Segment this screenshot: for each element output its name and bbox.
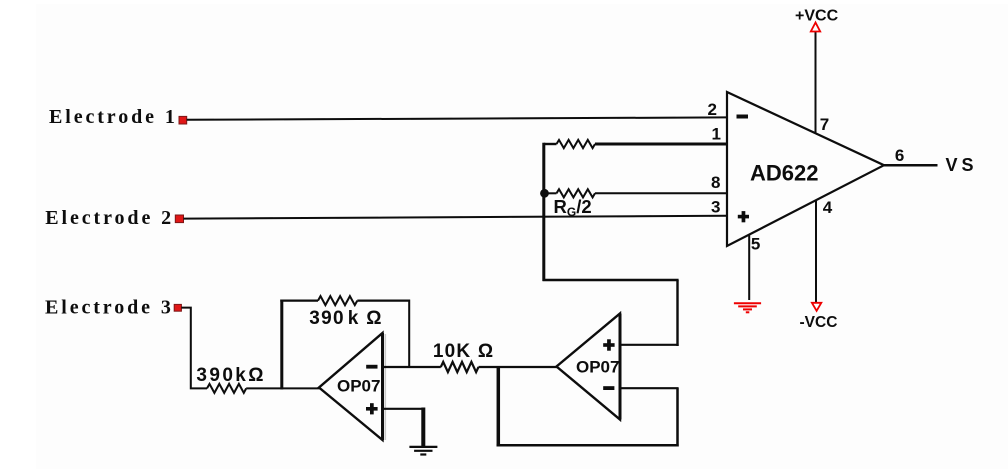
wire +VCC to pin 7 [815, 32, 817, 134]
op-amp U2 minus sign [603, 386, 614, 390]
wire AD622 pin 8 left segment [545, 192, 557, 194]
svg-text:Electrode 1: Electrode 1 [49, 106, 178, 128]
node Electrode 3 terminal (red square) [174, 304, 181, 311]
resistor R2 390kOhm feedback zigzag [318, 296, 357, 305]
svg-text:5: 5 [751, 234, 760, 253]
op-amp U2 flat edge thick [619, 314, 622, 420]
svg-text:390 k Ω: 390 k Ω [309, 308, 382, 329]
wire AD622 pin 1 left segment (thick) [544, 143, 557, 145]
svg-text:390kΩ: 390kΩ [196, 365, 266, 386]
wire U1 non-inverting input stub [383, 408, 424, 410]
wire feedback top right segment [357, 299, 409, 301]
junction node dot [540, 189, 549, 198]
wire RG node horizontal at y280 [543, 279, 679, 281]
power symbol +VCC red triangle [811, 23, 820, 32]
wire feedback right vertical to inverting input [408, 300, 410, 368]
op-amp U2 OP07 triangle (points left) [557, 314, 621, 420]
op-amp U1 plus sign [366, 407, 378, 411]
op-amp U3 AD622 triangle [727, 92, 884, 246]
svg-text:7: 7 [820, 115, 829, 134]
node Electrode 2 terminal (red square) [175, 215, 183, 223]
wire U2 feedback bottom horizontal [497, 444, 679, 447]
op-amp U1 OP07 triangle (points left) [319, 333, 383, 440]
svg-text:Electrode 2: Electrode 2 [45, 207, 174, 229]
wire pin 5 to ground [748, 235, 750, 301]
op-amp U3 minus sign [737, 115, 749, 119]
svg-text:4: 4 [823, 198, 833, 217]
svg-text:AD622: AD622 [750, 161, 818, 186]
wire AD622 pin 8 right segment [595, 192, 727, 194]
svg-text:8: 8 [711, 173, 720, 192]
wire thick vertical feedback-left node [280, 300, 283, 390]
svg-text:3: 3 [711, 197, 720, 216]
ground symbol (red) [734, 303, 761, 312]
svg-text:1: 1 [712, 125, 721, 144]
wire pin 4 to -VCC [815, 201, 817, 303]
wire U2 non-inverting stub [620, 344, 679, 346]
op-amp U1 minus sign [366, 365, 377, 369]
svg-text:OP07: OP07 [337, 377, 380, 396]
svg-text:+VCC: +VCC [795, 8, 839, 25]
svg-text:OP07: OP07 [576, 358, 619, 377]
resistor R3 10K zigzag [441, 362, 479, 372]
resistor RG/2 lower zigzag [557, 189, 596, 197]
ground symbol (black) [409, 447, 437, 455]
svg-text:Electrode 3: Electrode 3 [45, 297, 174, 319]
op-amp U1 flat edge thick [381, 333, 384, 440]
svg-text:10K Ω: 10K Ω [433, 341, 494, 362]
op-amp U3 plus sign [738, 215, 749, 219]
wire input resistor to OP07 U1 output node [246, 387, 319, 389]
power symbol -VCC red triangle [812, 303, 821, 311]
wire U2 feedback left vertical [497, 366, 501, 446]
wire Electrode 1 to AD622 pin 2 [187, 117, 727, 119]
wire U1 inverting input to 10K resistor [383, 366, 441, 368]
resistor RG/2 upper zigzag [557, 140, 596, 148]
wire U2 feedback right vertical [676, 388, 679, 446]
wire 10K resistor to U2 output node [479, 366, 558, 368]
node Electrode 1 terminal (red square) [179, 116, 187, 124]
wire thick vertical to ground [421, 408, 425, 447]
op-amp U2 plus sign [603, 343, 614, 347]
wire down to U2 non-inverting input [676, 280, 678, 346]
svg-text:-VCC: -VCC [800, 314, 838, 331]
wire U2 inverting stub [620, 387, 679, 389]
wire Electrode 2 to AD622 pin 3 [184, 216, 728, 219]
svg-text:2: 2 [708, 100, 717, 119]
wire output pin 6 to VS [884, 164, 938, 167]
wire AD622 pin 1 right segment (thick) [595, 143, 727, 146]
svg-text:VS: VS [946, 155, 978, 175]
wire Electrode 3 down to input resistor [181, 308, 207, 389]
op-amp U1 scan shadow [384, 334, 386, 440]
wire RG node vertical (thick) [542, 143, 545, 281]
resistor R1 390kOhm input zigzag [207, 384, 246, 393]
svg-text:6: 6 [895, 146, 904, 165]
wire feedback top left segment [280, 299, 318, 301]
